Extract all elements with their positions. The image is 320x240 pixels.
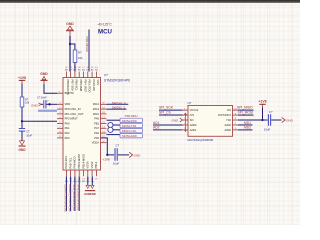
testpoint circle 2 — [108, 127, 113, 132]
power port GND (left arrow into U2) — [172, 118, 183, 123]
wire vertical net to top pin 6 — [88, 30, 90, 72]
wires bottom cluster (4 nets down) — [66, 176, 79, 211]
port MISO_CLK — [120, 128, 143, 132]
svg-text:GND: GND — [172, 118, 180, 122]
svg-text:SPI_MISO: SPI_MISO — [237, 106, 253, 110]
svg-text:MCU: MCU — [98, 29, 112, 36]
wire +1V8 to resistor — [21, 84, 23, 98]
svg-text:A2D2: A2D2 — [225, 123, 232, 127]
svg-text:PB15-MOSI: PB15-MOSI — [77, 154, 81, 169]
wire GND down to top pin 2 — [69, 36, 71, 72]
svg-text:PF1-OSC_OUT: PF1-OSC_OUT — [65, 112, 84, 116]
power port +1V8 (right) — [258, 100, 266, 108]
svg-text:DO: DO — [227, 108, 231, 112]
svg-text:PF0-OSC_IN: PF0-OSC_IN — [65, 107, 81, 111]
wire resistor to cap — [21, 107, 23, 128]
svg-text:B6: B6 — [74, 70, 77, 72]
svg-text:PB5-SMB: PB5-SMB — [79, 80, 83, 92]
svg-text:MA732GQ/AS5600: MA732GQ/AS5600 — [188, 138, 214, 142]
svg-text:SPI_MOSI: SPI_MOSI — [238, 111, 254, 115]
junction NRST — [21, 120, 23, 122]
wire cap to gnd — [21, 131, 23, 140]
junction — [69, 43, 71, 45]
wire VDDA to cap — [101, 138, 115, 155]
svg-text:SO: SO — [190, 118, 194, 122]
wire AD1 — [153, 124, 183, 126]
svg-text:GND: GND — [134, 154, 142, 158]
svg-text:VSSA: VSSA — [86, 161, 90, 168]
svg-text:MOSI-TX0: MOSI-TX0 — [122, 124, 136, 128]
wire resistor to top pin 3 — [74, 63, 76, 72]
wire AD2 — [153, 129, 183, 131]
power port +1V8 (left) — [18, 76, 26, 84]
testpoint circle 1 — [108, 122, 113, 127]
svg-text:TXD-MCU: TXD-MCU — [125, 114, 138, 118]
svg-text:PB3-JTDO: PB3-JTDO — [88, 80, 92, 93]
left pins — [57, 93, 63, 138]
svg-text:R?: R? — [78, 51, 82, 55]
svg-text:SPI2_MISO-GP04_K2: SPI2_MISO-GP04_K2 — [76, 185, 80, 211]
bottom pins — [66, 170, 96, 176]
svg-text:PA9: PA9 — [94, 117, 99, 121]
encoder U? body — [188, 106, 233, 137]
bottom pin names vertical inside — [64, 154, 98, 169]
svg-text:B7: B7 — [69, 70, 72, 72]
capacitor C? (U2) — [268, 114, 270, 126]
resistor R? 10k (top) — [73, 50, 77, 63]
ground (bottom 2) — [89, 185, 95, 190]
svg-text:GND: GND — [40, 72, 48, 76]
left pins U2 — [183, 110, 189, 130]
wire cap to gnd arrow — [118, 154, 129, 156]
svg-text:PA3: PA3 — [65, 136, 70, 140]
svg-text:MD2: MD2 — [244, 126, 251, 130]
svg-text:10k: 10k — [78, 56, 83, 60]
measure arrow (vertical, red) — [184, 113, 186, 131]
svg-text:PB1: PB1 — [94, 121, 99, 125]
net labels vertical bottom — [64, 185, 81, 213]
power port GND (right arrow U2) — [282, 117, 294, 122]
svg-text:Y1D: Y1D — [226, 118, 231, 122]
svg-text:PA1: PA1 — [65, 126, 70, 130]
svg-text:PA14: PA14 — [93, 102, 100, 106]
port MCU_TX0 — [120, 123, 143, 127]
wire NRST to pin — [22, 120, 57, 122]
svg-text:GND: GND — [18, 148, 26, 152]
wire PB1 to port — [113, 124, 120, 126]
svg-text:PA10: PA10 — [93, 112, 100, 116]
svg-text:PA5: PA5 — [94, 136, 99, 140]
svg-text:B5: B5 — [78, 70, 81, 72]
wires to bottom grounds — [88, 176, 93, 185]
wire SPI_SCK — [159, 109, 183, 111]
svg-text:MISO-CLK: MISO-CLK — [122, 129, 137, 133]
power port GND (right arrow) — [129, 152, 141, 157]
wire cap to gnd arrow — [271, 119, 281, 121]
left pin names U2 — [190, 108, 199, 132]
ground (below NRST cap) — [19, 141, 26, 146]
svg-text:PA9-TX1: PA9-TX1 — [68, 157, 72, 168]
wire SPI_MOSI — [238, 114, 254, 116]
svg-text:B4: B4 — [82, 70, 85, 72]
svg-text:B8: B8 — [65, 70, 68, 72]
svg-text:13: 13 — [82, 178, 85, 180]
port MCU_RX0 — [120, 118, 143, 122]
svg-text:10uF: 10uF — [264, 127, 271, 131]
svg-text:A2D0: A2D0 — [225, 128, 232, 132]
svg-text:U?: U? — [104, 73, 108, 77]
svg-text:MOSI-RX0: MOSI-RX0 — [122, 119, 137, 123]
wire +1V8 down — [262, 108, 264, 121]
svg-text:PA8-MCO: PA8-MCO — [73, 156, 77, 168]
junction — [106, 154, 108, 156]
wire SPI_MISO — [238, 109, 254, 111]
svg-text:-40-125°C: -40-125°C — [97, 22, 112, 26]
svg-text:VDDA: VDDA — [92, 141, 99, 145]
svg-text:BOOT0: BOOT0 — [65, 91, 75, 95]
svg-text:PA6: PA6 — [94, 131, 99, 135]
svg-text:10k: 10k — [25, 101, 30, 105]
svg-text:A5: A5 — [91, 69, 94, 72]
svg-text:PA0: PA0 — [65, 121, 70, 125]
right pins U2 — [233, 110, 239, 130]
svg-text:25: 25 — [95, 178, 98, 180]
svg-text:AD2: AD2 — [153, 126, 160, 130]
svg-text:MD1: MD1 — [244, 121, 251, 125]
svg-text:C?: C? — [269, 110, 273, 114]
svg-text:VSS2: VSS2 — [90, 161, 94, 168]
wire branch to resistor R? — [70, 44, 75, 50]
svg-text:PB13: PB13 — [94, 161, 98, 168]
ground (bottom 1) — [85, 185, 91, 190]
left pin numbers U2 — [184, 108, 186, 130]
bottom pin aux row (navy) — [65, 181, 94, 183]
power port GND (top, above MCU) — [66, 22, 74, 36]
svg-text:C?: C? — [26, 130, 30, 134]
svg-text:VDD: VDD — [65, 102, 71, 106]
junction — [261, 119, 263, 121]
svg-text:DIO7/DIO1: DIO7/DIO1 — [218, 113, 231, 117]
svg-text:M2: M2 — [82, 181, 86, 183]
port MOSI_AD — [120, 134, 143, 138]
resistor R? (left pullup) — [20, 97, 24, 107]
svg-text:10uF: 10uF — [113, 162, 120, 166]
power port GND (left arrow into VDD wire) — [31, 103, 41, 108]
right pin numbers — [102, 103, 105, 143]
wire PA6 to port — [107, 134, 121, 136]
svg-text:A2D1: A2D1 — [190, 128, 197, 132]
svg-text:P030-48C1D2: P030-48C1D2 — [85, 37, 88, 53]
bus bar (osc) — [38, 110, 57, 112]
wire PA7 to port — [113, 129, 120, 131]
left pin names — [65, 91, 84, 140]
right pin names U2 — [218, 108, 231, 132]
svg-text:PA10-RX1: PA10-RX1 — [64, 155, 68, 168]
left pin numbers — [59, 91, 61, 138]
svg-text:PF2-NRST: PF2-NRST — [65, 117, 78, 121]
svg-text:PB14-MISO: PB14-MISO — [81, 154, 85, 168]
svg-text:10nF: 10nF — [26, 133, 32, 137]
svg-text:VCC12: VCC12 — [190, 108, 199, 112]
wire cap to pin — [46, 103, 57, 105]
wire PA9 to port — [107, 119, 121, 121]
svg-text:GND: GND — [31, 104, 39, 108]
capacitor plates (series) — [44, 100, 46, 108]
MCU U? body — [63, 78, 101, 171]
svg-text:PA13: PA13 — [93, 107, 100, 111]
svg-text:GND: GND — [286, 119, 294, 123]
svg-text:C? 10nF: C? 10nF — [37, 95, 47, 99]
svg-text:PB7-SDA: PB7-SDA — [70, 80, 74, 92]
right pins — [101, 104, 107, 142]
svg-text:U?: U? — [188, 101, 192, 105]
svg-text:AD1: AD1 — [153, 121, 160, 125]
wire MD1 — [238, 124, 253, 126]
svg-text:PB6-SCL: PB6-SCL — [75, 80, 79, 92]
svg-text:SPI_CS: SPI_CS — [159, 111, 172, 115]
svg-text:PA2: PA2 — [65, 131, 70, 135]
svg-text:C?: C? — [116, 143, 120, 147]
svg-text:+1V8: +1V8 — [18, 76, 26, 80]
svg-text:USART1_TX-GP02_K2: USART1_TX-GP02_K2 — [68, 185, 72, 213]
svg-text:GND: GND — [89, 192, 95, 196]
wire SPI_CS — [159, 114, 183, 116]
top pin names vertical inside — [66, 80, 100, 96]
svg-text:VSS: VSS — [96, 80, 100, 86]
right pin names — [92, 102, 100, 144]
wire GND to BOOT0 pin — [44, 84, 57, 93]
junction — [48, 103, 50, 105]
wire VDD row — [41, 103, 43, 105]
top pin aux row (navy) — [65, 69, 98, 72]
svg-text:PB4-JRST: PB4-JRST — [83, 80, 87, 93]
power port GND (left of BOOT0) — [40, 72, 48, 84]
svg-text:SS: SS — [95, 70, 98, 72]
svg-text:USART1_RX-GP01_K2: USART1_RX-GP01_K2 — [64, 185, 68, 213]
top pins — [66, 72, 96, 78]
capacitor C? (NRST) — [19, 129, 25, 132]
svg-text:GND: GND — [66, 22, 74, 26]
svg-text:+1V8: +1V8 — [103, 157, 110, 161]
wire MD2 — [238, 129, 253, 131]
svg-text:SPI2_MOSI-GP03_K2: SPI2_MOSI-GP03_K2 — [72, 185, 76, 211]
bottom pin numbers (red row) — [66, 178, 99, 180]
top pin numbers (red row) — [65, 67, 98, 69]
svg-text:+1V8: +1V8 — [258, 100, 266, 104]
svg-text:SPI_SCK: SPI_SCK — [159, 106, 174, 110]
wire SWDIO — [107, 108, 127, 110]
svg-text:/CS: /CS — [190, 113, 195, 117]
wire SWCLK — [107, 103, 129, 105]
svg-text:MOSI-AD0: MOSI-AD0 — [122, 134, 137, 138]
svg-text:PA7: PA7 — [94, 126, 99, 130]
svg-text:STM32F030F4P6: STM32F030F4P6 — [104, 79, 130, 83]
wire VDD row U2 — [238, 119, 268, 121]
svg-text:PA15-JDI: PA15-JDI — [92, 80, 96, 92]
right pin numbers U2 — [234, 108, 237, 130]
capacitor C? (VDDA) — [115, 148, 117, 161]
svg-text:A2D0: A2D0 — [190, 123, 197, 127]
